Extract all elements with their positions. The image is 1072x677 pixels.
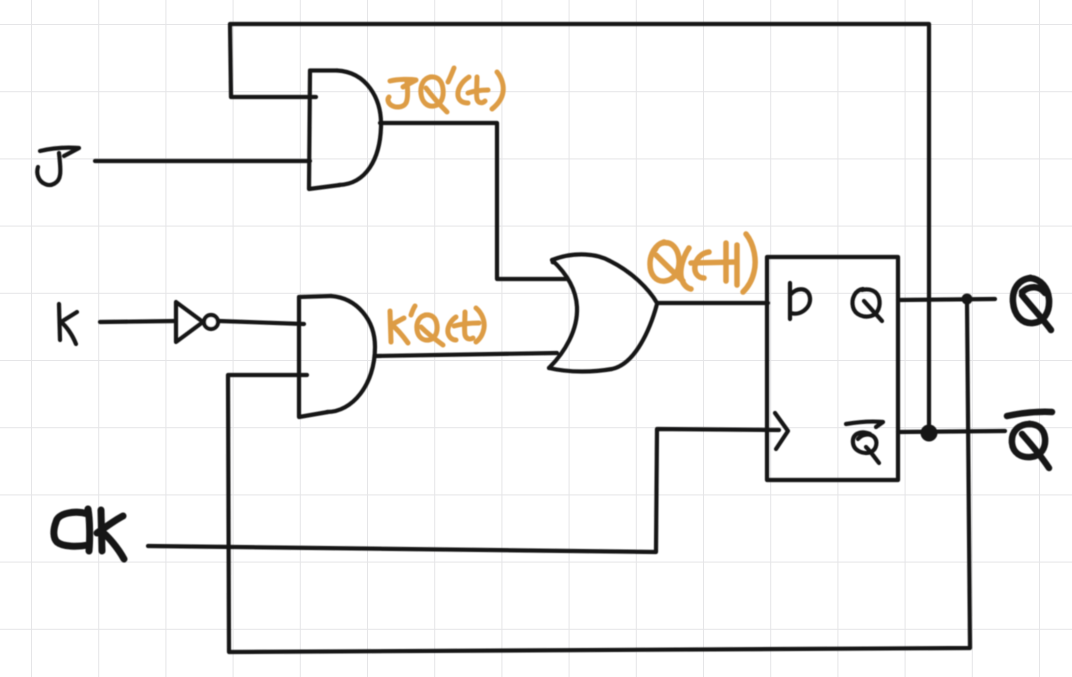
pin label Qbar inside flip-flop xyxy=(846,422,883,463)
wire: Q feedback down, across bottom, up to AND gate U2 lower input xyxy=(228,300,970,652)
D flip-flop U5 box xyxy=(767,257,898,480)
wire: J input to AND gate U1 xyxy=(95,159,310,163)
AND gate U1 (J AND Q') xyxy=(309,71,340,190)
wire: U2 output to OR gate U3 lower input xyxy=(376,353,557,356)
wire: U3 output to D flip-flop input xyxy=(657,301,768,305)
inverter U4 triangle xyxy=(176,302,203,342)
wire: Qbar output from flip-flop xyxy=(898,431,1005,432)
wire: clk to flip-flop clock pin xyxy=(148,429,779,552)
label Q (output, right) xyxy=(1013,278,1051,330)
label Q(t+1) on U3 output (orange) xyxy=(650,234,755,292)
wire: K input to inverter U4 xyxy=(100,321,176,322)
OR gate U3 xyxy=(552,254,657,303)
label K'Q(t) on U2 output (orange) xyxy=(390,311,408,343)
label JQ'(t) on U1 output (orange) xyxy=(390,79,416,87)
node: junction dot on Q output line xyxy=(962,294,973,305)
wire: U1 output to OR gate U3 upper input xyxy=(380,123,566,279)
wire: inverter output to AND gate U2 xyxy=(219,321,304,324)
label Qbar (output, right) with overline xyxy=(1007,412,1052,468)
label K (input) xyxy=(59,304,77,344)
AND gate U2 (K' AND Q) xyxy=(299,296,331,417)
label J (input) xyxy=(37,148,79,185)
wire: Qbar feedback from top-right down to AND gate U1 upper input xyxy=(230,24,929,430)
label clk (input) xyxy=(54,509,124,559)
inverter U4 bubble xyxy=(204,315,218,329)
node: junction dot on Qbar output line xyxy=(921,425,938,442)
pin: clock chevron inside flip-flop xyxy=(775,413,788,449)
wire: Q output from flip-flop xyxy=(898,299,995,300)
pin label D inside flip-flop xyxy=(790,283,810,319)
pin label Q inside flip-flop xyxy=(852,289,882,321)
